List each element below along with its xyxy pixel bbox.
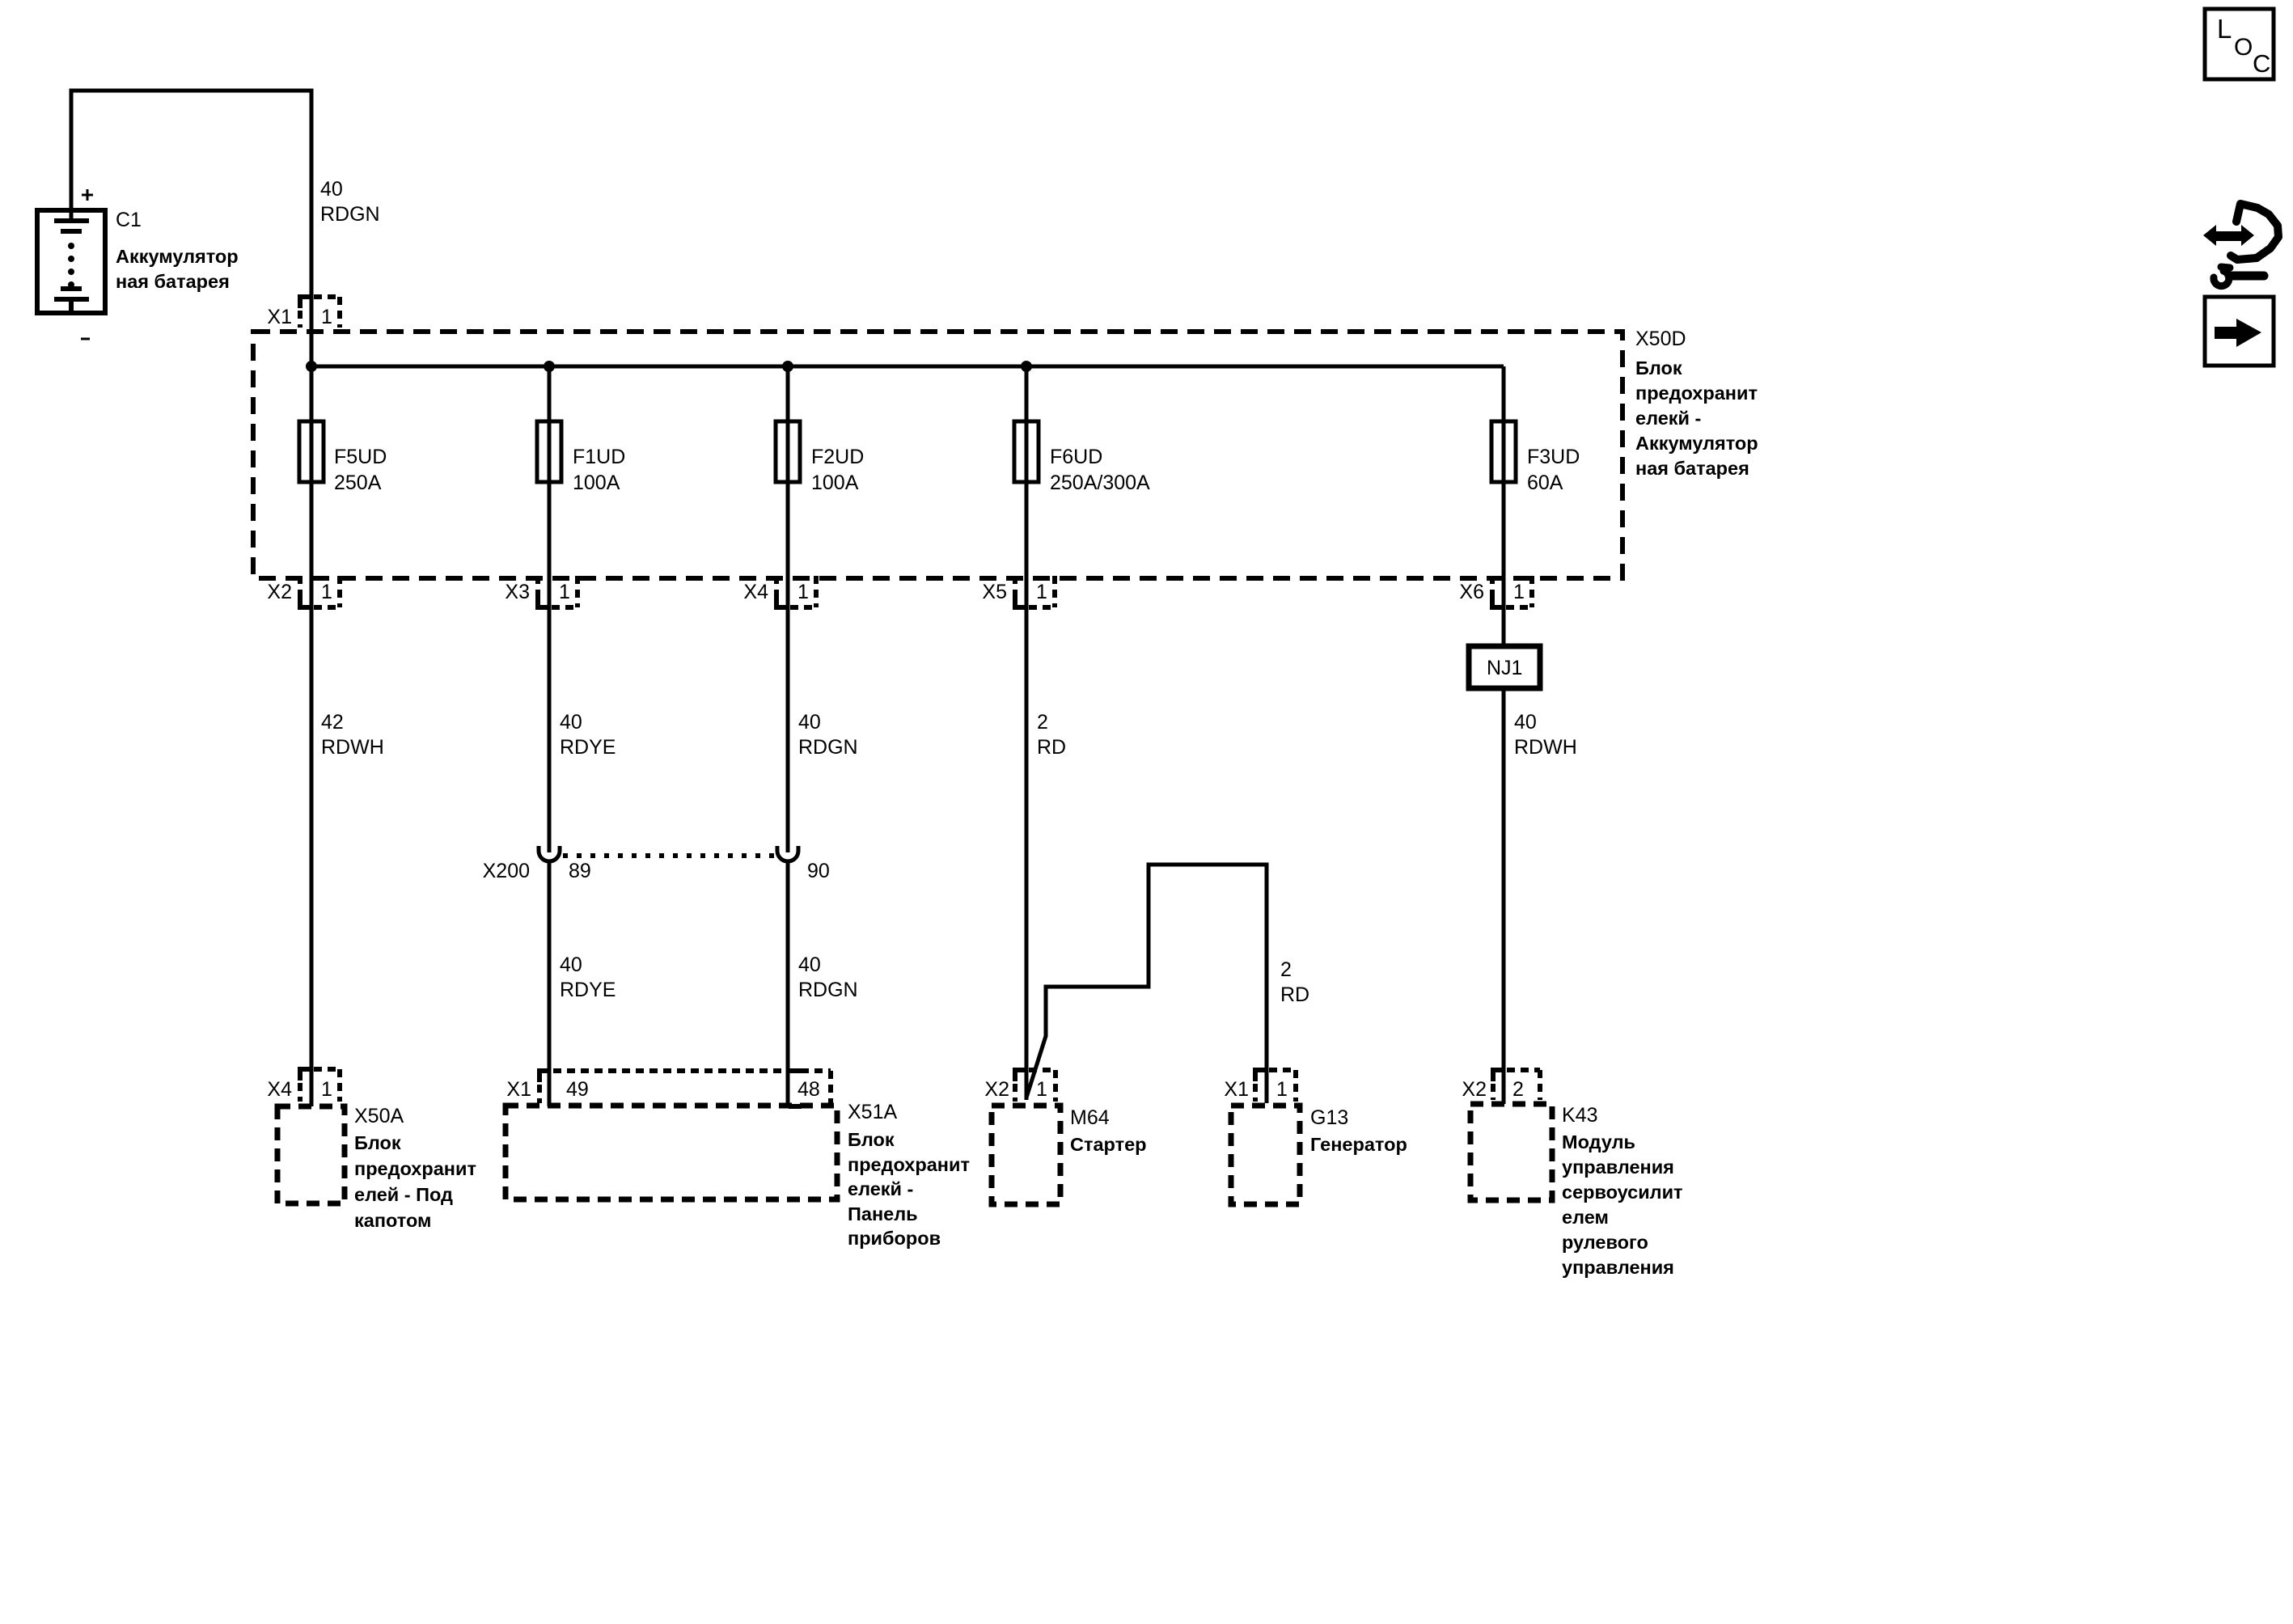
wire bus to fuse F6UD: [1025, 366, 1029, 421]
wire 40 RDYE lower (X200 to X51A pin 49): [548, 862, 552, 1106]
svg-text:O: O: [2234, 34, 2253, 61]
svg-text:Стартер: Стартер: [1070, 1134, 1147, 1155]
svg-text:40: 40: [798, 954, 821, 976]
svg-text:управления: управления: [1562, 1157, 1674, 1178]
svg-text:C1: C1: [116, 209, 142, 231]
svg-text:RDGN: RDGN: [798, 736, 858, 759]
svg-text:Модуль: Модуль: [1562, 1131, 1635, 1152]
svg-text:M64: M64: [1070, 1106, 1110, 1129]
connector X1 pin 1 (battery feed into X50D): [300, 297, 340, 328]
X200 dotted tie line: [563, 853, 774, 858]
svg-text:X200: X200: [483, 860, 530, 882]
svg-text:250A: 250A: [334, 472, 382, 494]
svg-text:40: 40: [798, 711, 821, 734]
svg-text:предохранит: предохранит: [354, 1158, 476, 1179]
wire 40 RDGN lower (X200 to X51A pin 48): [786, 862, 790, 1106]
generator G13 box: [1231, 1106, 1300, 1204]
fuse F1UD 100A: [537, 421, 625, 494]
svg-text:40: 40: [560, 954, 582, 976]
svg-text:предохранит: предохранит: [848, 1154, 970, 1175]
fuse block X51A box: [506, 1106, 837, 1199]
battery plus terminal: [82, 189, 93, 201]
svg-text:X5: X5: [982, 581, 1007, 603]
svg-text:F3UD: F3UD: [1527, 446, 1580, 468]
svg-text:C: C: [2253, 49, 2270, 78]
direction arrow box: [2205, 297, 2274, 366]
svg-text:2: 2: [1512, 1078, 1524, 1101]
svg-text:Аккумулятор: Аккумулятор: [1635, 433, 1758, 454]
svg-text:X2: X2: [1462, 1078, 1487, 1101]
svg-text:1: 1: [1513, 581, 1525, 603]
svg-text:2: 2: [1280, 958, 1292, 981]
svg-text:елем: елем: [1562, 1207, 1609, 1228]
svg-text:F6UD: F6UD: [1050, 446, 1102, 468]
svg-text:X3: X3: [505, 581, 530, 603]
svg-text:F5UD: F5UD: [334, 446, 387, 468]
svg-text:приборов: приборов: [848, 1228, 941, 1249]
wire 42 RDWH (F5UD to X50A): [310, 482, 314, 1106]
wire 2 RD (F6UD to M64): [1025, 482, 1029, 1100]
fuse F3UD 60A: [1491, 421, 1580, 494]
connector X2 pin 2 (into K43): [1493, 1070, 1540, 1100]
battery minus terminal: [81, 338, 90, 340]
battery C1: [37, 210, 105, 313]
svg-text:RD: RD: [1280, 983, 1309, 1006]
svg-text:1: 1: [797, 581, 809, 603]
svg-text:1: 1: [1036, 1078, 1047, 1101]
svg-text:1: 1: [559, 581, 570, 603]
junction node at F1UD: [544, 361, 555, 372]
svg-text:предохранит: предохранит: [1635, 383, 1758, 404]
inline connector X200 pin 90: [777, 846, 798, 861]
junction node at F2UD: [782, 361, 793, 372]
wire 40 RDYE upper (F1UD to X200): [548, 482, 552, 852]
connector X1 pin 1 (into G13): [1255, 1070, 1296, 1102]
svg-text:RDWH: RDWH: [321, 736, 384, 759]
LOC legend box: [2205, 9, 2274, 79]
svg-text:40: 40: [560, 711, 582, 734]
svg-text:2: 2: [1037, 711, 1048, 734]
wire 2 RD (G13 to M64 splice): [1026, 865, 1267, 1103]
connector X3 pin 1: [538, 576, 577, 607]
connector X4 pin 1 (below X50D): [776, 576, 816, 607]
fuse F5UD 250A: [299, 421, 387, 494]
fuse block X50D box: [253, 332, 1622, 578]
splice NJ1: [1469, 646, 1540, 688]
starter M64 box: [992, 1106, 1060, 1204]
svg-text:NJ1: NJ1: [1487, 657, 1522, 679]
svg-text:42: 42: [321, 711, 344, 734]
wire 40 RDWH (NJ1 to K43): [1502, 688, 1506, 1104]
connector X2 pin 1: [300, 576, 340, 607]
svg-text:X1: X1: [1224, 1078, 1249, 1101]
svg-text:Панель: Панель: [848, 1203, 918, 1224]
bus wire inside X50D: [311, 365, 1504, 369]
svg-text:40: 40: [1514, 711, 1537, 734]
svg-text:49: 49: [566, 1078, 589, 1101]
fuse F6UD 250A/300A: [1014, 421, 1150, 494]
svg-text:X50D: X50D: [1635, 328, 1686, 350]
svg-text:X4: X4: [267, 1078, 292, 1101]
svg-text:X1: X1: [506, 1078, 531, 1101]
connector X2 pin 1 (into M64): [1015, 1070, 1056, 1102]
svg-text:1: 1: [1036, 581, 1047, 603]
svg-text:F1UD: F1UD: [573, 446, 625, 468]
fuse F2UD 100A: [776, 421, 864, 494]
connector X6 pin 1: [1492, 576, 1532, 607]
wire bus to fuse F2UD: [786, 366, 790, 421]
svg-text:100A: 100A: [811, 472, 859, 494]
svg-text:89: 89: [569, 860, 591, 882]
svg-text:RDWH: RDWH: [1514, 736, 1577, 759]
wire bus corner to fuse F3UD: [1502, 366, 1506, 421]
svg-text:рулевого: рулевого: [1562, 1232, 1648, 1253]
svg-text:капотом: капотом: [354, 1210, 431, 1231]
connector X1 pins 49/48 (into X51A): [539, 1071, 831, 1106]
svg-text:X51A: X51A: [848, 1101, 897, 1123]
svg-text:X1: X1: [267, 306, 292, 328]
svg-text:X2: X2: [267, 581, 292, 603]
svg-text:250A/300A: 250A/300A: [1050, 472, 1150, 494]
svg-text:90: 90: [807, 860, 830, 882]
wire battery to X1 (40 RDGN): [71, 91, 311, 366]
svg-text:елекй -: елекй -: [1635, 408, 1701, 429]
svg-text:L: L: [2217, 14, 2232, 44]
svg-text:X4: X4: [743, 581, 768, 603]
svg-text:1: 1: [321, 306, 332, 328]
svg-text:Аккумулятор: Аккумулятор: [116, 246, 239, 267]
svg-text:X2: X2: [984, 1078, 1009, 1101]
svg-text:Блок: Блок: [354, 1132, 401, 1153]
svg-text:ная батарея: ная батарея: [116, 271, 230, 292]
wire bus to fuse F5UD: [310, 366, 314, 421]
svg-text:60A: 60A: [1527, 472, 1563, 494]
svg-text:100A: 100A: [573, 472, 620, 494]
connector X5 pin 1: [1015, 576, 1055, 607]
svg-text:1: 1: [321, 1078, 332, 1101]
svg-text:RD: RD: [1037, 736, 1066, 759]
steering module K43 box: [1470, 1104, 1552, 1200]
junction node at F6UD: [1021, 361, 1032, 372]
svg-text:управления: управления: [1562, 1257, 1674, 1278]
svg-text:ная батарея: ная батарея: [1635, 458, 1749, 479]
wire 40 RDGN upper (F2UD to X200): [786, 482, 790, 852]
svg-text:RDYE: RDYE: [560, 736, 616, 759]
svg-text:Блок: Блок: [848, 1129, 895, 1150]
svg-text:сервоусилит: сервоусилит: [1562, 1182, 1683, 1203]
connector X4 pin 1 (into X50A): [300, 1069, 340, 1102]
svg-text:K43: K43: [1562, 1104, 1597, 1127]
svg-text:Блок: Блок: [1635, 357, 1682, 379]
svg-text:Генератор: Генератор: [1310, 1134, 1407, 1155]
fuse block X50A box: [277, 1106, 345, 1203]
svg-text:F2UD: F2UD: [811, 446, 864, 468]
svg-text:G13: G13: [1310, 1106, 1348, 1129]
svg-text:RDYE: RDYE: [560, 979, 616, 1001]
junction node at F5UD: [306, 361, 317, 372]
svg-text:X50A: X50A: [354, 1105, 404, 1127]
svg-text:48: 48: [797, 1078, 820, 1101]
inline connector X200 pin 89: [539, 846, 560, 861]
svg-text:елей - Под: елей - Под: [354, 1184, 453, 1205]
svg-text:елекй -: елекй -: [848, 1178, 913, 1199]
svg-text:1: 1: [321, 581, 332, 603]
svg-text:X6: X6: [1459, 581, 1484, 603]
wire 40 RDWH (F3UD to NJ1): [1502, 482, 1506, 646]
svg-text:40: 40: [320, 178, 343, 201]
wire bus to fuse F1UD: [548, 366, 552, 421]
svg-text:RDGN: RDGN: [798, 979, 858, 1001]
svg-text:1: 1: [1276, 1078, 1288, 1101]
svg-text:RDGN: RDGN: [320, 203, 380, 226]
harness repair icon (arrow + wrench): [2203, 204, 2278, 286]
